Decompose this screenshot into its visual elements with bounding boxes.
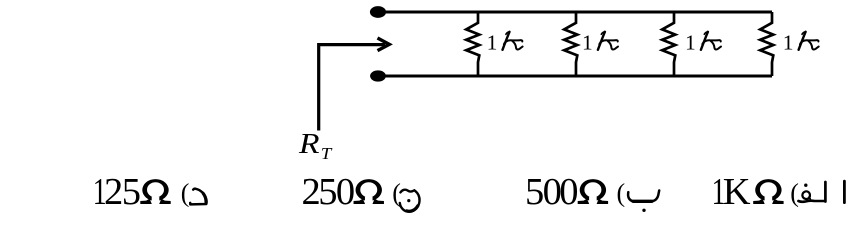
arabic letter jeem head (option c) — [400, 190, 420, 212]
svg-text:1: 1 — [685, 30, 696, 54]
label R1 value 1k — [487, 30, 523, 54]
svg-text:(: ( — [181, 178, 190, 207]
arabic letter lam stem — [824, 182, 827, 202]
arabic letter alef — [843, 181, 846, 202]
label R2 value 1k — [582, 30, 618, 54]
label RT — [298, 128, 333, 163]
svg-text:5: 5 — [318, 171, 337, 213]
answer option (b) 500 ohm : digits — [525, 171, 625, 213]
svg-text:1: 1 — [783, 30, 794, 54]
answer option (c) 250 ohm : digits — [302, 171, 401, 213]
arabic letter beh weight — [633, 200, 652, 203]
arrowhead pointing at terminal gap — [378, 38, 390, 51]
svg-text:K: K — [723, 171, 751, 213]
label R4 value 1k — [783, 30, 819, 54]
arabic letter feh loop (option a) — [802, 191, 810, 199]
resistor R4 — [760, 12, 773, 76]
label R3 value 1k — [685, 30, 721, 54]
svg-text:1: 1 — [582, 30, 593, 54]
svg-text:5: 5 — [525, 171, 544, 213]
resistor R2 — [564, 12, 577, 76]
terminal node (bottom) — [370, 70, 386, 81]
arabic letter jeem dot — [407, 199, 410, 202]
top rail wire — [378, 11, 772, 14]
arabic letter jeem bowl weight — [407, 206, 418, 211]
arabic letter feh-lam baseline stroke — [798, 201, 825, 202]
resistor R1 — [466, 12, 479, 76]
svg-text:(: ( — [790, 178, 799, 207]
svg-text:5: 5 — [122, 171, 141, 213]
resistor R3 — [662, 12, 675, 76]
terminal node (top) — [370, 6, 386, 18]
svg-text:1: 1 — [487, 30, 498, 54]
svg-text:(: ( — [617, 178, 626, 207]
arabic letter feh dot — [804, 184, 807, 187]
arabic letter beh dot — [642, 209, 645, 212]
arabic letter beh body (option b) — [628, 191, 659, 202]
svg-text:0: 0 — [336, 171, 355, 213]
svg-text:R: R — [298, 128, 320, 160]
bottom rail wire — [378, 75, 772, 78]
arabic letter dal (option d) — [190, 189, 206, 205]
answer option (d) 125 ohm : digits — [93, 171, 190, 213]
svg-text:0: 0 — [559, 171, 578, 213]
arabic letter feh loop-to-baseline connector — [809, 197, 810, 201]
wire: corner lead with vertical drop to RT — [319, 45, 385, 131]
answer option (a) 1 kilo-ohm : digits — [712, 171, 799, 213]
svg-text:T: T — [321, 144, 333, 163]
arabic letter dal weight — [203, 193, 206, 202]
svg-text:2: 2 — [104, 171, 123, 213]
